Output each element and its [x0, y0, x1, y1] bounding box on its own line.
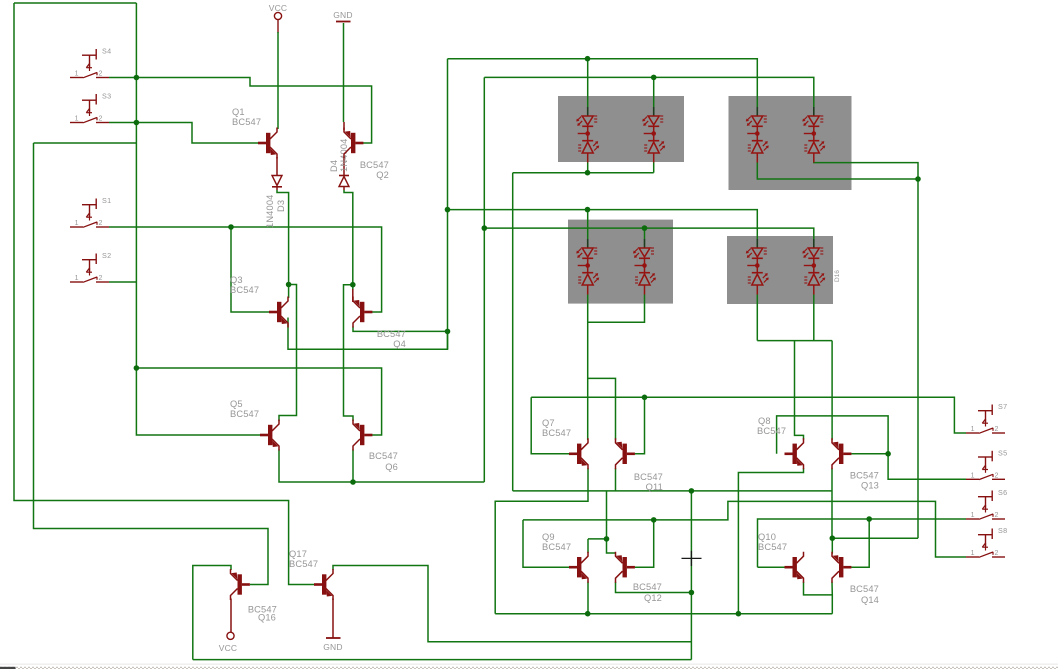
transistor Q12	[616, 552, 635, 583]
transistor Q16	[231, 569, 250, 600]
wire drop into LED1 left	[587, 59, 589, 107]
switch S7	[966, 405, 1005, 434]
wire to Q14 emitter	[831, 538, 833, 553]
svg-text:BC547: BC547	[230, 409, 259, 419]
wire LED3 left out to Q7 collector	[587, 295, 589, 441]
svg-text:2: 2	[99, 220, 103, 227]
junction	[228, 224, 234, 230]
transistor Q8	[785, 438, 804, 469]
junction	[350, 282, 356, 288]
wire Q10 frame to S6 pin1	[758, 519, 967, 567]
wire feed y228 to LED4 right	[484, 228, 814, 239]
svg-text:2: 2	[99, 275, 103, 282]
svg-text:BC547: BC547	[377, 329, 406, 339]
wire frame to Q9 base	[523, 520, 570, 567]
wire Q16 emitter loop	[193, 566, 231, 660]
wire Q9 collector up	[587, 539, 589, 553]
svg-text:D16: D16	[834, 270, 841, 282]
wire frame to Q14 base	[851, 519, 869, 567]
wire Q8 emitter drop	[738, 468, 803, 613]
svg-text:1: 1	[75, 220, 79, 227]
svg-text:2: 2	[99, 71, 103, 78]
switch S5	[966, 451, 1005, 480]
wire S1 branch to Q3 base	[231, 227, 269, 312]
svg-text:1: 1	[971, 472, 975, 479]
svg-text:GND: GND	[333, 10, 353, 20]
sheet origin cross	[682, 557, 702, 559]
wire LED4 bottom link	[757, 340, 832, 342]
wire mid rail y490	[513, 490, 832, 492]
junction	[642, 225, 648, 231]
svg-text:Q16: Q16	[258, 613, 276, 623]
svg-text:S2: S2	[102, 251, 111, 260]
svg-text:1: 1	[971, 512, 975, 519]
junction	[885, 451, 891, 457]
wire frame to Q11 base	[635, 397, 645, 454]
wire to Q12 emitter	[607, 491, 616, 553]
wire Q7 emitter drop	[495, 468, 588, 613]
svg-text:S4: S4	[102, 47, 111, 56]
wire long drop x512	[512, 173, 514, 491]
svg-text:2: 2	[99, 116, 103, 123]
wire GND to Q2 emitter	[343, 23, 345, 122]
wire D3 to Q3 collector node	[277, 190, 289, 285]
wire Q12 collector	[616, 582, 692, 593]
wire Q6 emitter drop	[352, 450, 354, 483]
transistor Q4	[353, 297, 372, 328]
svg-text:Q9: Q9	[542, 532, 555, 542]
wire Q13 base	[851, 453, 888, 455]
svg-text:Q13: Q13	[861, 481, 879, 491]
wire S2 branch to Q6 base	[136, 368, 381, 435]
LED module box LED2	[729, 96, 852, 190]
svg-text:Q17: Q17	[289, 549, 307, 559]
transistor Q5	[260, 420, 279, 451]
wire Q17 collector loop	[333, 566, 691, 642]
LED pair D9	[576, 239, 599, 295]
transistor Q6	[353, 420, 372, 451]
svg-text:Q12: Q12	[644, 593, 662, 603]
svg-text:1: 1	[971, 550, 975, 557]
wire drop into LED3 right	[644, 228, 646, 239]
svg-text:VCC: VCC	[269, 3, 288, 13]
switch S8	[966, 529, 1005, 558]
LED pair D6	[802, 107, 825, 163]
junction	[585, 207, 591, 213]
LED module box LED4	[727, 236, 833, 304]
wire LED1 bottom rail	[513, 172, 654, 174]
wire Q3 emitter to node	[288, 318, 448, 350]
svg-text:BC547: BC547	[850, 471, 879, 481]
wire LED1 right out	[653, 163, 655, 173]
transistor Q17	[314, 569, 333, 600]
wire LED1 left out	[587, 163, 589, 173]
svg-text:BC547: BC547	[634, 472, 663, 482]
transistor Q14	[832, 552, 851, 583]
switch S3	[70, 94, 109, 123]
svg-text:S7: S7	[998, 402, 1007, 411]
junction	[134, 75, 140, 81]
svg-text:1: 1	[75, 116, 79, 123]
junction	[830, 535, 836, 541]
svg-text:BC547: BC547	[542, 428, 571, 438]
GND symbol (bottom)	[326, 637, 341, 639]
wire frame to Q12 base	[635, 520, 654, 567]
svg-text:VCC: VCC	[219, 643, 238, 653]
wire Q9 emitter drop	[587, 582, 589, 614]
LED pair D2	[642, 107, 665, 163]
wire Q8 base frame	[777, 416, 889, 454]
diode D4	[339, 157, 349, 190]
svg-text:BC547: BC547	[360, 160, 389, 170]
wire Q9 frame to S8	[523, 501, 966, 557]
wire to Q13 emitter	[831, 341, 833, 440]
wire LED4 right out	[813, 295, 815, 341]
switch S2	[70, 254, 109, 283]
svg-text:BC547: BC547	[369, 451, 398, 461]
wire bottom rail y659	[193, 659, 692, 661]
wire node to Q3 collector	[288, 285, 290, 299]
junction	[689, 590, 695, 596]
svg-text:Q14: Q14	[861, 595, 879, 605]
svg-text:2: 2	[995, 426, 999, 433]
LED pair D5	[746, 107, 769, 163]
wire Q10 base	[758, 566, 785, 568]
junction	[736, 611, 742, 617]
LED pair D1	[576, 107, 599, 163]
wire drop into LED3 left	[587, 210, 589, 239]
wire top feed y77	[484, 77, 814, 107]
wire LED2 right out	[814, 163, 918, 180]
wire base frame to S7	[531, 397, 966, 433]
junction	[585, 56, 591, 62]
wire LED3 right out jog	[588, 295, 645, 323]
transistor Q13	[832, 438, 851, 469]
wire jog to Q11 emitter	[588, 378, 616, 439]
svg-text:Q1: Q1	[232, 107, 245, 117]
junction	[651, 517, 657, 523]
svg-text:Q10: Q10	[758, 532, 776, 542]
junction	[915, 176, 921, 182]
svg-text:1: 1	[75, 275, 79, 282]
wire left loop to Q16 base	[34, 143, 269, 585]
junction	[585, 611, 591, 617]
junction	[445, 329, 451, 335]
svg-text:2: 2	[995, 472, 999, 479]
svg-text:1: 1	[75, 71, 79, 78]
svg-text:BC547: BC547	[633, 582, 662, 592]
wire Q3 node to Q5 collector	[279, 285, 297, 422]
wire node to Q4 emitter	[352, 285, 354, 290]
wire rail to Q10 emitter	[804, 582, 833, 614]
wire top feed y58	[448, 59, 758, 107]
junction	[350, 479, 356, 485]
svg-text:Q2: Q2	[376, 170, 389, 180]
junction	[286, 282, 292, 288]
LED pair D10	[633, 239, 656, 295]
junction	[134, 120, 140, 126]
LED pair D13	[746, 239, 769, 295]
junction	[482, 225, 488, 231]
bottom-left dark mark	[0, 667, 16, 669]
wire link to x918	[832, 537, 918, 539]
wire S4 pin2	[109, 77, 136, 79]
wire long drop x691	[690, 491, 692, 660]
wire Q4 node to Q6 collector	[344, 285, 354, 421]
wire S3 pin2	[109, 122, 136, 124]
svg-text:2: 2	[995, 512, 999, 519]
junction	[642, 395, 648, 401]
wire bottom rail y613	[495, 613, 832, 615]
wire D4 to Q4 emitter node	[344, 190, 353, 285]
svg-text:1N4004: 1N4004	[265, 195, 275, 228]
svg-text:D4: D4	[329, 160, 339, 172]
svg-text:Q7: Q7	[542, 418, 555, 428]
LED module box LED1	[558, 96, 684, 162]
svg-text:BC547: BC547	[850, 584, 879, 594]
svg-text:BC547: BC547	[232, 117, 261, 127]
junction	[604, 536, 610, 542]
wire Q14 collector to rail	[831, 582, 833, 595]
junction	[689, 488, 695, 494]
wire S1 to Q4 base	[109, 227, 382, 312]
svg-text:Q11: Q11	[646, 482, 663, 492]
diode D3	[272, 157, 282, 190]
svg-text:BC547: BC547	[542, 542, 571, 552]
svg-text:D3: D3	[276, 200, 286, 212]
pin red Q2 emitter	[343, 122, 345, 130]
LED pair D14	[802, 239, 825, 295]
VCC symbol (top)	[274, 12, 281, 19]
wire to S5	[888, 454, 966, 480]
svg-text:Q4: Q4	[393, 339, 406, 349]
wire S4 to Q2 base	[136, 78, 371, 144]
wire Q17 emitter to GND	[332, 599, 334, 639]
wire Q13 collector drop	[831, 468, 833, 538]
svg-text:1: 1	[971, 426, 975, 433]
GND symbol (top)	[336, 21, 351, 23]
wire LED2 left out	[757, 163, 918, 180]
wire net N1 top	[14, 2, 136, 4]
svg-text:BC547: BC547	[758, 542, 787, 552]
svg-text:S6: S6	[998, 488, 1007, 497]
switch S4	[70, 49, 109, 78]
wire LED4 left out	[756, 295, 758, 341]
wire drop into LED1 right	[653, 77, 655, 107]
switch S1	[70, 199, 109, 228]
switch S6	[966, 491, 1005, 520]
transistor Q7	[569, 438, 588, 469]
junction	[866, 516, 872, 522]
transistor Q11	[616, 438, 635, 469]
svg-text:Q6: Q6	[385, 462, 398, 472]
wire net N1 left to Q17 base	[14, 3, 314, 585]
LED module box LED3	[568, 220, 673, 304]
wire long drop x918	[917, 179, 919, 538]
wire feed y209 to LED4 left	[448, 210, 758, 239]
transistor Q10	[785, 552, 804, 583]
wire S3 to Q1 base	[136, 123, 269, 144]
wire Q9 collector link	[588, 538, 607, 540]
junction	[651, 75, 657, 81]
wire Q16 collector to VCC	[230, 599, 232, 633]
transistor Q1	[258, 128, 277, 159]
wire Q4 collector to node	[353, 327, 448, 332]
wire S2 pin2	[109, 281, 136, 283]
transistor Q9	[569, 552, 588, 583]
wire vertical net to LED row	[447, 59, 449, 350]
svg-text:BC547: BC547	[289, 559, 318, 569]
wire LED feed right column	[483, 77, 485, 482]
junction	[134, 365, 140, 371]
svg-text:Q3: Q3	[230, 275, 243, 285]
transistor Q3	[269, 297, 288, 328]
svg-text:Q5: Q5	[230, 399, 243, 409]
svg-text:S5: S5	[998, 448, 1007, 457]
svg-text:BC547: BC547	[230, 285, 259, 295]
svg-text:S1: S1	[102, 196, 111, 205]
svg-text:S8: S8	[998, 526, 1007, 535]
wire stub y143	[34, 142, 137, 144]
junction	[585, 170, 591, 176]
svg-text:2: 2	[995, 550, 999, 557]
wire frame to Q7 base	[531, 397, 569, 454]
transistor Q2	[344, 128, 363, 159]
wire Q11 collector up	[615, 468, 617, 491]
window edge dotted line	[0, 663, 1058, 665]
VCC symbol (bottom)	[227, 632, 234, 639]
wire VCC to Q1 collector	[277, 32, 279, 129]
wire to Q8 collector	[795, 341, 804, 440]
svg-text:Q8: Q8	[758, 416, 771, 426]
junction	[445, 207, 451, 213]
wire Q5 emitter rail	[279, 450, 484, 483]
svg-text:GND: GND	[323, 642, 343, 652]
pin red Q4 emitter	[352, 289, 354, 302]
svg-text:S3: S3	[102, 92, 111, 101]
wire S-column to Q5 base	[136, 3, 260, 435]
svg-text:BC547: BC547	[757, 426, 786, 436]
